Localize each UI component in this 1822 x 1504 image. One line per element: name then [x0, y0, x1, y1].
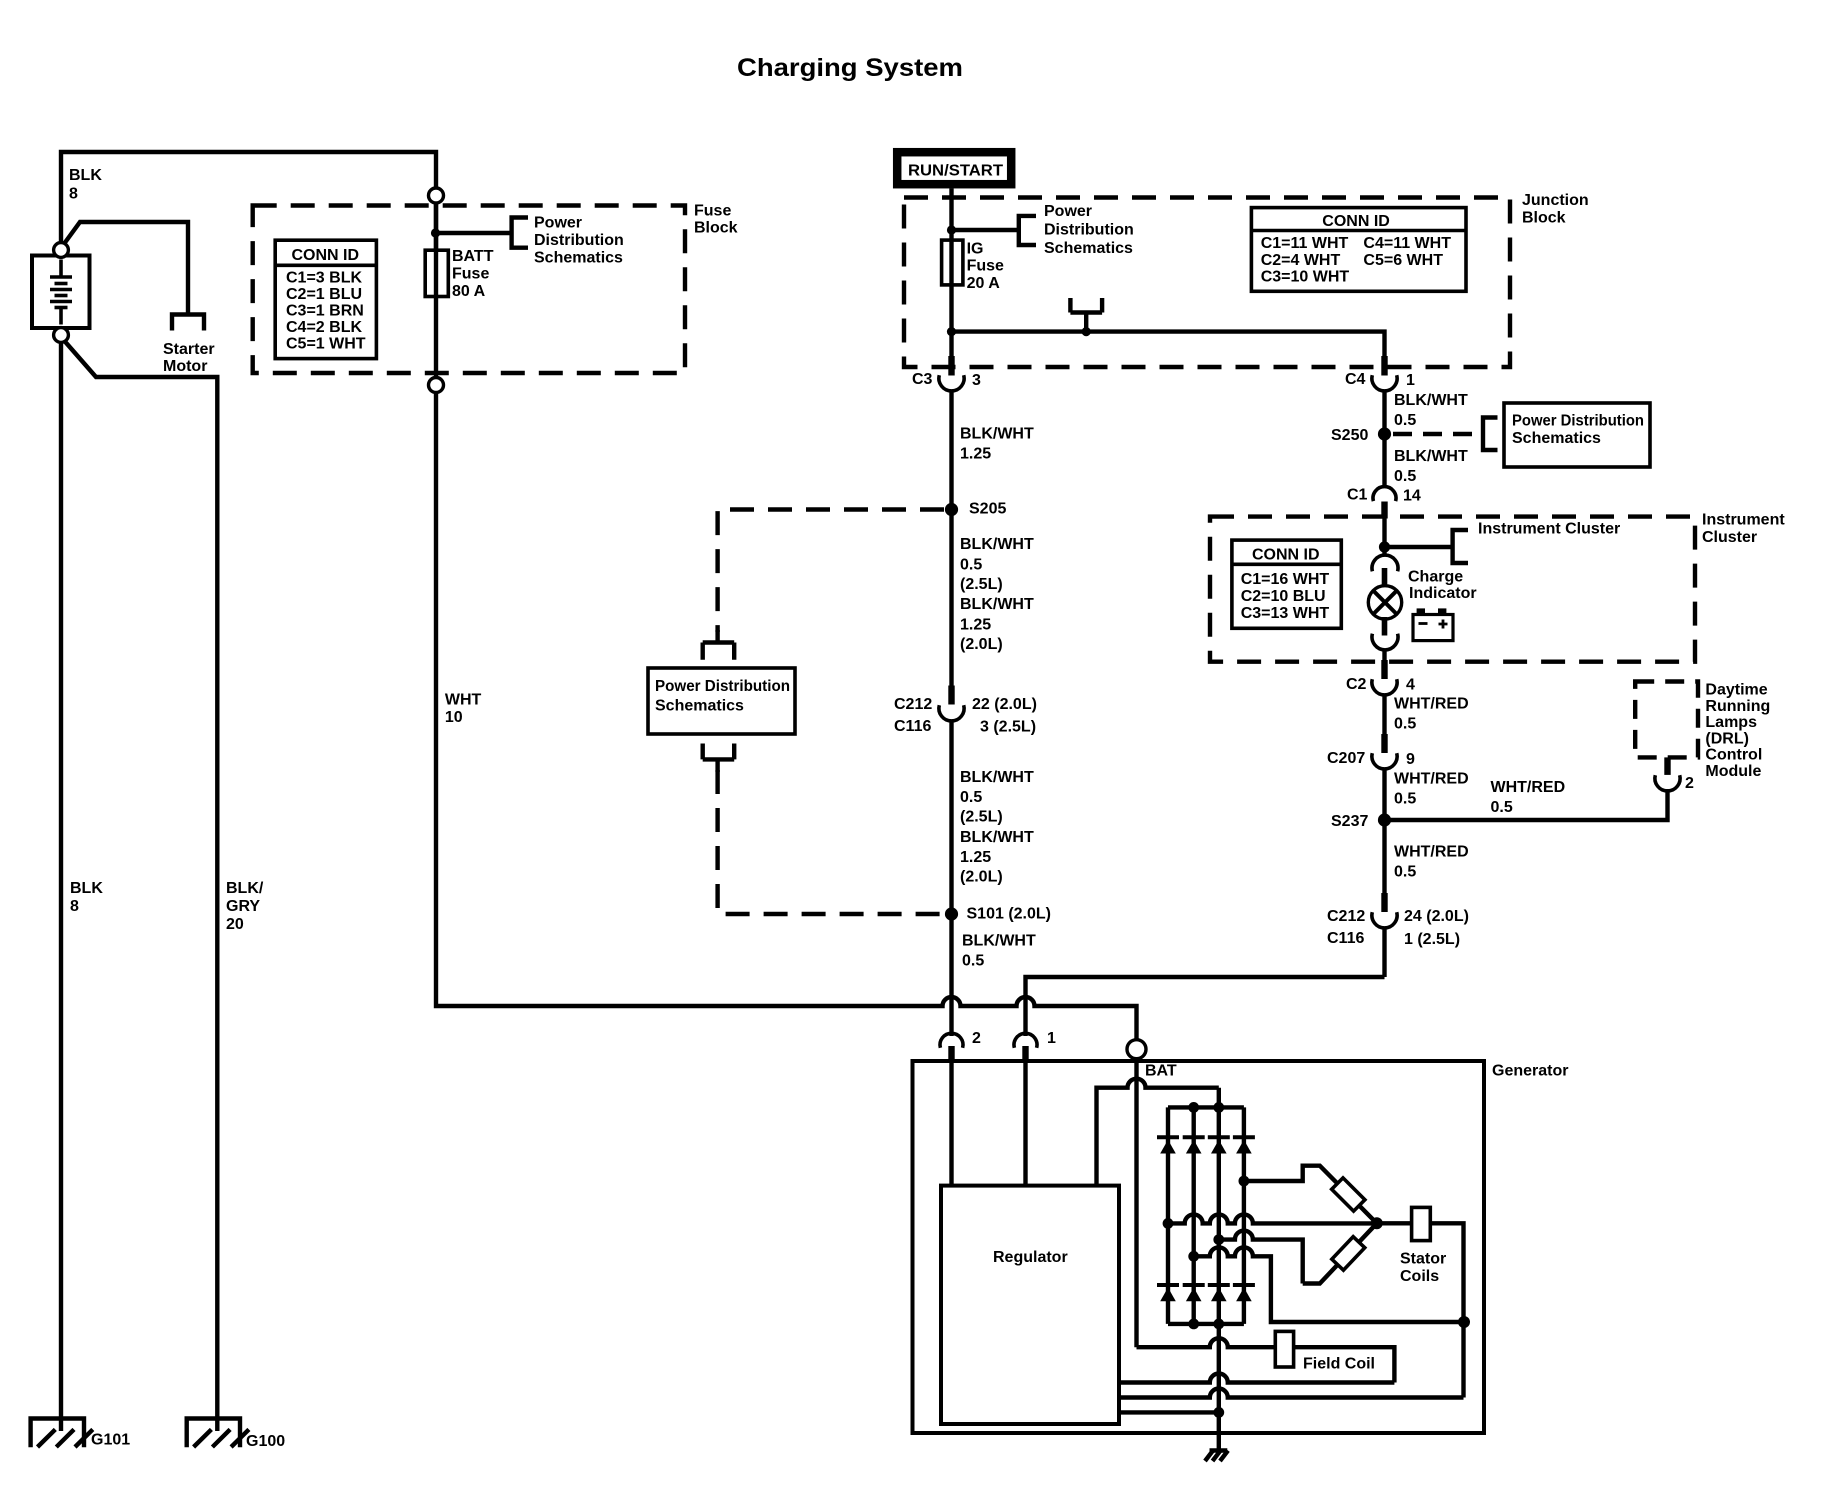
connector C1 pin 14 [1347, 487, 1421, 519]
lower diode D7 [1208, 1285, 1230, 1301]
svg-text:Indicator: Indicator [1409, 585, 1477, 602]
svg-text:RUN/START: RUN/START [908, 163, 1003, 180]
svg-text:Starter: Starter [163, 341, 215, 358]
svg-text:4: 4 [1406, 677, 1415, 694]
svg-text:0.5: 0.5 [960, 789, 982, 806]
svg-text:Lamps: Lamps [1705, 714, 1757, 731]
ground generator internal [1210, 1448, 1228, 1452]
instrument cluster dashed box [1210, 517, 1695, 662]
fuse block terminal circle top [429, 188, 444, 203]
stator coil top branch from column 4 [1244, 1166, 1377, 1224]
node stator return [1458, 1316, 1470, 1328]
svg-text:Schematics: Schematics [655, 698, 744, 715]
svg-text:C5=1 WHT: C5=1 WHT [286, 335, 366, 352]
wire junction block horizontal to C4 [952, 332, 1385, 358]
svg-text:IG: IG [967, 241, 984, 258]
connector C212 / C116 (left) pin 22/3 [894, 686, 1037, 736]
wire C212 to S101 then down (BLK/WHT) [949, 721, 953, 1037]
svg-text:C116: C116 [894, 718, 931, 735]
svg-text:1: 1 [1406, 372, 1415, 389]
svg-text:Power: Power [1044, 203, 1092, 220]
stator coil 1 [1332, 1178, 1365, 1211]
svg-text:Charging System: Charging System [737, 54, 963, 82]
svg-text:10: 10 [445, 709, 463, 726]
power distribution schematics box (left) [648, 668, 795, 734]
svg-text:BLK/WHT: BLK/WHT [960, 829, 1034, 846]
svg-text:Block: Block [694, 220, 738, 237]
connector C3 pin 3 [912, 356, 981, 391]
node junction IG fuse bottom [947, 327, 956, 336]
diode bridge bottom bus [1168, 1322, 1244, 1326]
svg-text:20: 20 [226, 916, 244, 933]
wire battery negative to G100 branch (BLK/GRY 20) [61, 337, 217, 1431]
svg-text:Fuse: Fuse [967, 257, 1004, 274]
junction block internal bus symbol [1070, 298, 1102, 332]
node S250 [1378, 427, 1391, 440]
svg-text:BLK: BLK [70, 880, 103, 897]
svg-text:Coils: Coils [1400, 1268, 1439, 1285]
svg-text:C1=16 WHT: C1=16 WHT [1241, 571, 1330, 588]
svg-text:(2.0L): (2.0L) [960, 636, 1003, 653]
node S101 [945, 907, 958, 920]
wire starter motor branch [61, 222, 188, 315]
svg-text:BATT: BATT [452, 248, 494, 265]
svg-text:BLK/WHT: BLK/WHT [1394, 448, 1468, 465]
svg-text:S237: S237 [1331, 813, 1368, 830]
svg-text:C207: C207 [1327, 750, 1365, 767]
svg-text:Field Coil: Field Coil [1303, 1356, 1375, 1373]
connector C212 / C116 (right) pin 24/1 [1327, 893, 1469, 948]
svg-text:BAT: BAT [1145, 1063, 1177, 1080]
node cluster junction [1379, 541, 1390, 552]
svg-text:C4: C4 [1345, 371, 1366, 388]
wire C3 to left C212 (BLK/WHT) [949, 391, 953, 688]
svg-text:(2.5L): (2.5L) [960, 576, 1003, 593]
svg-text:Power Distribution: Power Distribution [1512, 413, 1644, 430]
svg-text:24 (2.0L): 24 (2.0L) [1404, 908, 1469, 925]
svg-text:2: 2 [972, 1030, 981, 1047]
ground G100 [187, 1419, 240, 1448]
svg-text:14: 14 [1403, 488, 1421, 505]
diode bridge top bus [1168, 1105, 1244, 1109]
svg-text:CONN ID: CONN ID [1322, 213, 1390, 230]
svg-text:(DRL): (DRL) [1705, 730, 1749, 747]
upper diode D3 [1208, 1137, 1230, 1153]
stator coil lower branch [1303, 1223, 1377, 1283]
svg-text:Schematics: Schematics [1512, 430, 1601, 447]
connector DRL pin 2 [1655, 757, 1694, 792]
diode column 2 [1191, 1107, 1195, 1324]
svg-text:Distribution: Distribution [534, 232, 624, 249]
wire regulator to diode bridge top [1097, 1079, 1219, 1186]
svg-text:C3=10 WHT: C3=10 WHT [1261, 269, 1350, 286]
svg-text:Power: Power [534, 215, 582, 232]
svg-text:20 A: 20 A [967, 275, 1001, 292]
svg-text:C2=10 BLU: C2=10 BLU [1241, 588, 1326, 605]
fuse IG Fuse 20 A [942, 240, 963, 285]
stator phase wire A [1168, 1214, 1377, 1223]
diode column 3 / ground stem [1217, 1088, 1221, 1451]
connector 2 (generator) [940, 1030, 981, 1063]
wire through BATT fuse [434, 203, 438, 378]
svg-text:Block: Block [1522, 209, 1566, 226]
wire C2 to C207 (WHT/RED 0.5) [1382, 695, 1386, 736]
svg-text:Stator: Stator [1400, 1251, 1446, 1268]
svg-text:3 (2.5L): 3 (2.5L) [980, 719, 1036, 736]
svg-text:Running: Running [1705, 698, 1770, 715]
svg-text:Instrument: Instrument [1702, 512, 1785, 529]
svg-text:C2=1 BLU: C2=1 BLU [286, 286, 362, 303]
upper diode D1 [1157, 1137, 1179, 1153]
dashed link S250 to power distribution [1393, 432, 1476, 436]
battery terminal circle top [54, 243, 69, 258]
svg-text:WHT: WHT [445, 691, 482, 708]
wire battery positive to fuse block (BLK 8) [61, 152, 436, 250]
svg-text:C4=11 WHT: C4=11 WHT [1363, 235, 1451, 252]
field coil resistor [1275, 1331, 1293, 1367]
svg-text:BLK/WHT: BLK/WHT [960, 769, 1034, 786]
svg-text:0.5: 0.5 [1394, 412, 1416, 429]
svg-text:Fuse: Fuse [452, 266, 489, 283]
junction block dashed box [904, 198, 1510, 368]
wire battery negative down to G101 (BLK 8) [59, 335, 63, 1431]
svg-text:C116: C116 [1327, 930, 1364, 947]
wire C212 right down to generator branch [1382, 928, 1386, 978]
svg-text:0.5: 0.5 [960, 557, 982, 574]
svg-text:0.5: 0.5 [1394, 791, 1416, 808]
svg-text:C3: C3 [912, 371, 933, 388]
svg-text:22 (2.0L): 22 (2.0L) [972, 696, 1037, 713]
svg-text:WHT/RED: WHT/RED [1394, 696, 1469, 713]
svg-text:BLK/WHT: BLK/WHT [960, 596, 1034, 613]
svg-text:0.5: 0.5 [1491, 799, 1513, 816]
svg-text:2: 2 [1685, 775, 1694, 792]
svg-text:WHT/RED: WHT/RED [1394, 844, 1469, 861]
fuse BATT Fuse 80 A [425, 250, 448, 296]
svg-text:8: 8 [70, 898, 79, 915]
wire C4 to C1 (BLK/WHT 0.5) [1382, 391, 1386, 489]
battery icon [1413, 608, 1453, 640]
svg-text:1: 1 [1047, 1030, 1056, 1047]
connector 1 (generator) [1014, 1030, 1056, 1063]
svg-text:Regulator: Regulator [993, 1249, 1068, 1266]
CONN ID table (fuse block) [275, 240, 376, 358]
wire lamp to C2 [1382, 650, 1386, 662]
svg-text:1.25: 1.25 [960, 617, 991, 634]
svg-text:WHT/RED: WHT/RED [1394, 771, 1469, 788]
svg-text:G100: G100 [246, 1433, 285, 1450]
svg-text:C3=1 BRN: C3=1 BRN [286, 302, 364, 319]
svg-text:80 A: 80 A [452, 283, 486, 300]
svg-text:Distribution: Distribution [1044, 222, 1134, 239]
svg-text:1 (2.5L): 1 (2.5L) [1404, 931, 1460, 948]
svg-text:G101: G101 [91, 1432, 130, 1449]
stator coil 2 [1332, 1237, 1365, 1271]
lower diode D6 [1183, 1285, 1205, 1301]
fuse block dashed box [253, 206, 685, 374]
svg-text:0.5: 0.5 [1394, 864, 1416, 881]
svg-text:C2=4 WHT: C2=4 WHT [1261, 252, 1341, 269]
node junction bus [1082, 327, 1091, 336]
CONN ID table (instrument cluster) [1232, 540, 1341, 628]
svg-text:Power Distribution: Power Distribution [655, 678, 790, 695]
battery plates [59, 260, 63, 278]
upper diode D2 [1183, 1137, 1205, 1153]
wire to instrument cluster bracket [1385, 545, 1453, 549]
lower diode D8 [1233, 1285, 1255, 1301]
upper diode D4 [1233, 1137, 1255, 1153]
wire field coil return to regulator [1119, 1374, 1394, 1383]
wire stator output through resistor [1377, 1223, 1464, 1397]
svg-text:BLK/WHT: BLK/WHT [960, 426, 1034, 443]
bracket instrument cluster [1453, 530, 1468, 563]
wire stator return to regulator [1119, 1389, 1464, 1398]
svg-text:C3=13 WHT: C3=13 WHT [1241, 605, 1330, 622]
ground G101 [31, 1419, 84, 1448]
svg-text:Module: Module [1705, 763, 1761, 780]
RUN/START box [897, 152, 1011, 184]
svg-text:WHT/RED: WHT/RED [1491, 779, 1566, 796]
svg-text:3: 3 [972, 372, 981, 389]
svg-text:Daytime: Daytime [1705, 682, 1767, 699]
wire connector 2 to regulator [949, 1063, 953, 1186]
svg-text:Control: Control [1705, 747, 1762, 764]
bracket to schematics box top [703, 630, 735, 660]
wire C207 to S237 to C212 (WHT/RED 0.5) [1382, 769, 1386, 895]
wire to power distribution bracket (junction block) [952, 228, 1019, 232]
svg-text:S250: S250 [1331, 427, 1368, 444]
wire to power distribution bracket [436, 231, 512, 235]
svg-text:BLK/WHT: BLK/WHT [960, 536, 1034, 553]
wire RUN/START through IG fuse to C3 [949, 189, 953, 359]
node junction above IG fuse [947, 225, 956, 234]
svg-text:C212: C212 [894, 696, 932, 713]
svg-text:C1: C1 [1347, 487, 1368, 504]
svg-text:Motor: Motor [163, 358, 207, 375]
svg-text:C4=2 BLK: C4=2 BLK [286, 319, 362, 336]
svg-text:CONN ID: CONN ID [292, 247, 360, 264]
svg-text:C212: C212 [1327, 908, 1365, 925]
svg-text:1.25: 1.25 [960, 849, 991, 866]
svg-text:CONN ID: CONN ID [1252, 547, 1320, 564]
daytime running lamps DRL dashed box [1635, 682, 1698, 758]
svg-text:BLK: BLK [69, 167, 102, 184]
svg-text:S205: S205 [969, 501, 1006, 518]
node stator junction [1371, 1217, 1383, 1229]
svg-text:BLK/: BLK/ [226, 880, 264, 897]
stator phase wire B [1219, 1231, 1303, 1284]
wire connector 1 to regulator [1023, 1063, 1027, 1186]
svg-text:1.25: 1.25 [960, 446, 991, 463]
svg-text:8: 8 [69, 186, 78, 203]
power distribution schematics dashed link (left) [718, 510, 944, 633]
BAT terminal circle [1127, 1040, 1146, 1059]
node S205 [945, 503, 958, 516]
svg-text:Instrument Cluster: Instrument Cluster [1478, 521, 1620, 538]
svg-text:0.5: 0.5 [962, 953, 984, 970]
node junction above BATT fuse [431, 228, 440, 237]
connector C4 pin 1 [1345, 356, 1415, 391]
generator box [913, 1061, 1485, 1433]
bracket power distribution (S250) [1483, 418, 1498, 451]
svg-text:0.5: 0.5 [1394, 468, 1416, 485]
connector C2 pin 4 [1346, 660, 1415, 695]
svg-text:9: 9 [1406, 751, 1415, 768]
svg-text:C1=3 BLK: C1=3 BLK [286, 269, 362, 286]
wire C1 into cluster [1382, 519, 1386, 557]
svg-text:C1=11 WHT: C1=11 WHT [1261, 235, 1349, 252]
stator phase wire C [1194, 1247, 1464, 1322]
bracket power distribution (fuse block) [512, 218, 528, 248]
diode column 1 [1166, 1107, 1170, 1324]
wire field coil top (from BAT) [1137, 1338, 1395, 1382]
svg-text:GRY: GRY [226, 898, 260, 915]
CONN ID table (junction block) [1251, 208, 1466, 292]
node S237 [1378, 813, 1391, 826]
regulator box [941, 1186, 1119, 1424]
svg-text:Generator: Generator [1492, 1063, 1568, 1080]
wire regulator to ground bus [1119, 1410, 1219, 1414]
svg-text:C5=6 WHT: C5=6 WHT [1363, 252, 1443, 269]
svg-text:(2.5L): (2.5L) [960, 809, 1003, 826]
fuse block terminal circle bottom [429, 378, 444, 393]
stator series resistor [1412, 1207, 1431, 1240]
charge indicator lamp L1 [1368, 555, 1401, 650]
wire BAT down to field coil [1134, 1059, 1138, 1348]
svg-text:Charge: Charge [1408, 569, 1463, 586]
svg-text:Fuse: Fuse [694, 203, 731, 220]
diode column 4 [1242, 1107, 1246, 1324]
svg-text:Schematics: Schematics [534, 250, 623, 267]
svg-text:Cluster: Cluster [1702, 529, 1757, 546]
power distribution schematics box (S250) [1504, 403, 1650, 467]
bracket to schematics box bottom [703, 744, 735, 773]
svg-text:BLK/WHT: BLK/WHT [962, 933, 1036, 950]
svg-text:S101 (2.0L): S101 (2.0L) [967, 906, 1051, 923]
svg-text:C2: C2 [1346, 676, 1367, 693]
svg-text:Schematics: Schematics [1044, 240, 1133, 257]
wire fuse to generator (WHT 10) [436, 393, 1137, 1040]
battery B1 box [32, 256, 90, 329]
connector C207 pin 9 [1327, 734, 1415, 769]
starter motor terminal bracket [172, 315, 204, 331]
battery terminal circle bottom [54, 328, 69, 343]
bracket power distribution (junction block) [1019, 216, 1036, 245]
svg-text:(2.0L): (2.0L) [960, 869, 1003, 886]
lower diode D5 [1157, 1285, 1179, 1301]
wire S237 to DRL module (WHT/RED 0.5) [1385, 789, 1668, 820]
wire C212 right branch down to connector 1 [1026, 977, 1385, 1036]
svg-text:0.5: 0.5 [1394, 716, 1416, 733]
svg-text:BLK/WHT: BLK/WHT [1394, 392, 1468, 409]
svg-text:Junction: Junction [1522, 192, 1589, 209]
